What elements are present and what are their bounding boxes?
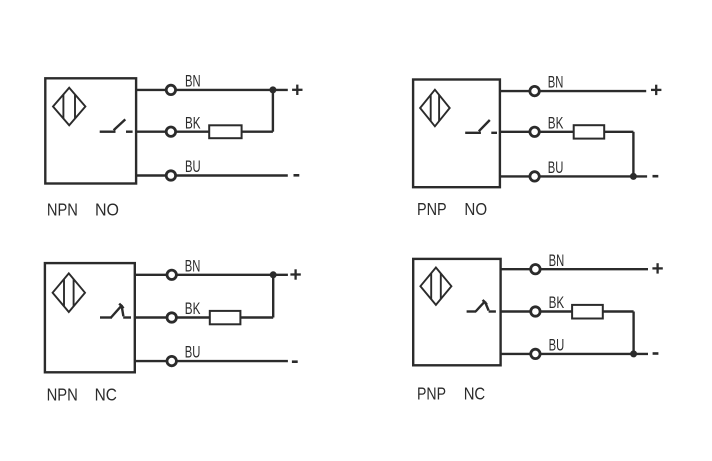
terminal BU (PNP NC)	[531, 349, 540, 358]
proximity sensor symbol (NPN NO)	[53, 88, 85, 126]
wire BN (PNP NO)	[500, 90, 646, 92]
proximity sensor symbol (NPN NC)	[53, 273, 85, 312]
terminal BN (PNP NO)	[530, 86, 539, 95]
svg-text:NO: NO	[95, 200, 119, 220]
svg-text:NC: NC	[95, 385, 117, 405]
terminal BK (PNP NO)	[530, 127, 539, 136]
svg-text:BN: BN	[185, 72, 201, 91]
wire BK (NPN NO)	[136, 130, 273, 132]
NC switch contact (PNP NC)	[467, 300, 496, 312]
svg-text:NC: NC	[464, 384, 486, 404]
svg-text:NPN: NPN	[47, 385, 78, 405]
wire BU (PNP NO)	[500, 175, 647, 177]
terminal BN (NPN NC)	[167, 270, 176, 279]
svg-text:BK: BK	[549, 293, 565, 312]
svg-text:NO: NO	[464, 199, 487, 219]
svg-text:BU: BU	[548, 158, 564, 177]
caption PNP NO (PNP NO)	[417, 199, 487, 219]
caption PNP NC (PNP NC)	[417, 384, 485, 404]
wire link to supply (NPN NC)	[272, 275, 274, 318]
svg-text:BN: BN	[549, 251, 565, 270]
junction node (PNP NC)	[630, 350, 637, 357]
proximity sensor symbol (PNP NC)	[420, 268, 451, 305]
resistor load (PNP NC)	[572, 305, 603, 319]
sensor box (PNP NC)	[413, 259, 500, 365]
wire BU (NPN NO)	[136, 174, 288, 176]
svg-text:NPN: NPN	[47, 200, 78, 220]
svg-text:BU: BU	[549, 336, 565, 355]
terminal BK (NPN NO)	[166, 127, 175, 136]
junction node (NPN NO)	[269, 86, 276, 93]
minus supply (NPN NO)	[294, 174, 300, 177]
junction node (PNP NO)	[630, 173, 637, 180]
svg-text:BK: BK	[185, 299, 201, 318]
NO switch contact (PNP NO)	[465, 120, 497, 133]
terminal BU (NPN NC)	[167, 356, 176, 365]
svg-text:PNP: PNP	[417, 384, 446, 404]
terminal BN (PNP NC)	[531, 265, 540, 274]
junction node (NPN NC)	[270, 271, 277, 278]
wire BN (NPN NC)	[135, 274, 288, 276]
wire BU (PNP NC)	[501, 353, 648, 355]
svg-text:BN: BN	[185, 256, 201, 275]
wire link to supply (PNP NO)	[632, 132, 634, 177]
plus supply (PNP NO)	[651, 85, 661, 95]
terminal BK (PNP NC)	[531, 307, 540, 316]
proximity sensor symbol (PNP NO)	[420, 90, 450, 127]
wire BU (NPN NC)	[135, 360, 288, 362]
terminal BK (NPN NC)	[167, 313, 176, 322]
resistor load (NPN NC)	[210, 311, 241, 324]
wire BK (PNP NO)	[500, 131, 634, 133]
minus supply (PNP NO)	[653, 175, 659, 178]
minus supply (PNP NC)	[653, 352, 659, 355]
terminal BU (PNP NO)	[530, 172, 539, 181]
caption NPN NC (NPN NC)	[47, 385, 117, 405]
wire BN (NPN NO)	[136, 89, 288, 91]
terminal BN (NPN NO)	[166, 85, 175, 94]
sensor box (PNP NO)	[413, 80, 500, 188]
wire link to supply (NPN NO)	[272, 90, 274, 132]
wire BK (NPN NC)	[135, 316, 273, 318]
NO switch contact (NPN NO)	[100, 119, 133, 131]
caption NPN NO (NPN NO)	[47, 200, 119, 220]
plus supply (NPN NO)	[292, 85, 302, 95]
resistor load (PNP NO)	[574, 125, 605, 138]
wire BN (PNP NC)	[501, 268, 648, 270]
wire link to supply (PNP NC)	[632, 312, 634, 354]
NC switch contact (NPN NC)	[100, 304, 131, 318]
svg-text:BU: BU	[185, 343, 201, 362]
sensor box (NPN NO)	[45, 78, 136, 183]
svg-text:BK: BK	[548, 113, 564, 132]
svg-text:BU: BU	[185, 157, 201, 176]
svg-text:BN: BN	[548, 73, 564, 92]
svg-text:BK: BK	[185, 113, 201, 132]
sensor box (NPN NC)	[45, 263, 135, 372]
resistor load (NPN NO)	[209, 125, 241, 138]
svg-text:PNP: PNP	[417, 199, 447, 219]
wire BK (PNP NC)	[501, 310, 634, 312]
minus supply (NPN NC)	[292, 360, 298, 363]
plus supply (NPN NC)	[290, 269, 300, 279]
plus supply (PNP NC)	[652, 263, 662, 273]
terminal BU (NPN NO)	[166, 171, 175, 180]
